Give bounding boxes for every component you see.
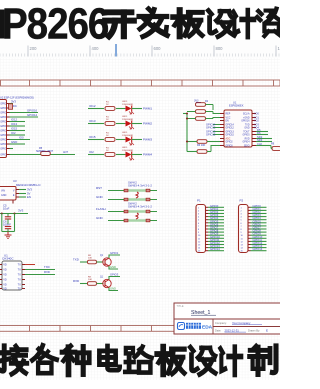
svg-text:TX: TX — [18, 274, 22, 277]
svg-text:VD: VD — [3, 269, 7, 272]
svg-text:ANT: ANT — [63, 151, 68, 154]
svg-text:GPIO: GPIO — [0, 130, 6, 133]
svg-text:SW-B3-4.3x4.3-1-2: SW-B3-4.3x4.3-1-2 — [128, 184, 152, 188]
svg-text:1206GS(R): 1206GS(R) — [122, 104, 133, 106]
svg-text:GND: GND — [244, 128, 249, 130]
svg-text:3V3: 3V3 — [11, 99, 16, 103]
svg-text:GPIO12: GPIO12 — [226, 128, 235, 130]
svg-text:GPIO: GPIO — [0, 154, 6, 157]
svg-text:RXD: RXD — [73, 279, 79, 283]
svg-text:ME6211C33M5G-N: ME6211C33M5G-N — [16, 183, 40, 187]
svg-text:GPIO16: GPIO16 — [27, 108, 38, 112]
svg-text:GPIO14: GPIO14 — [226, 125, 235, 127]
svg-text:VD: VD — [3, 288, 7, 291]
svg-text:LED1: LED1 — [122, 101, 128, 103]
svg-text:LED1: LED1 — [122, 116, 128, 118]
svg-text:10K: 10K — [88, 279, 92, 281]
svg-text:Your Company: Your Company — [232, 321, 251, 325]
svg-text:VCC: VCC — [226, 118, 231, 120]
svg-text:TXD: TXD — [44, 265, 50, 269]
svg-text:VD: VD — [3, 264, 7, 267]
svg-text:GND: GND — [96, 216, 104, 220]
svg-text:IO2: IO2 — [89, 150, 94, 154]
svg-text:GPIO13: GPIO13 — [226, 132, 235, 134]
svg-text:VD: VD — [3, 284, 7, 287]
svg-text:PWM2: PWM2 — [143, 122, 152, 126]
svg-text:GPIO: GPIO — [0, 139, 6, 142]
svg-text:GPIO: GPIO — [0, 107, 6, 110]
svg-text:2023-12-31: 2023-12-31 — [225, 328, 240, 332]
svg-text:IO15: IO15 — [11, 126, 18, 130]
svg-text:GND: GND — [1, 194, 7, 197]
svg-text:RST: RST — [96, 186, 102, 190]
svg-text:VIN: VIN — [1, 190, 5, 193]
svg-text:GND: GND — [11, 140, 17, 144]
svg-text:1206GS(R): 1206GS(R) — [122, 150, 133, 152]
svg-text:IO13: IO13 — [11, 122, 18, 126]
svg-text:TX: TX — [18, 284, 22, 287]
svg-text:1206GS(R): 1206GS(R) — [122, 119, 133, 121]
svg-text:GPIO: GPIO — [0, 125, 6, 128]
svg-text:TXD: TXD — [245, 125, 250, 127]
svg-text:GPIO2: GPIO2 — [226, 142, 234, 144]
svg-text:GPIO: GPIO — [0, 112, 6, 115]
svg-text:GND: GND — [96, 195, 104, 199]
svg-text:IO2: IO2 — [11, 131, 16, 135]
svg-text:P8266: P8266 — [2, 0, 108, 42]
svg-text:GPIO14: GPIO14 — [27, 113, 38, 117]
svg-text:SMF05C-LM3T: SMF05C-LM3T — [36, 150, 54, 153]
svg-text:EN: EN — [226, 121, 230, 123]
svg-text:TX: TX — [18, 264, 22, 267]
svg-text:IO13: IO13 — [89, 119, 96, 123]
svg-text:GPIO: GPIO — [0, 134, 6, 137]
svg-text:P2: P2 — [240, 199, 244, 203]
svg-text:RXD: RXD — [245, 139, 250, 141]
svg-text:GPIO5: GPIO5 — [242, 135, 250, 137]
svg-text:GPIO0: GPIO0 — [226, 146, 234, 148]
svg-text:EN: EN — [27, 195, 31, 199]
svg-text:TX: TX — [18, 279, 22, 282]
svg-text:GPIO4: GPIO4 — [242, 142, 250, 144]
svg-text:VD: VD — [3, 274, 7, 277]
svg-text:E: E — [266, 328, 268, 332]
svg-text:GPIO16: GPIO16 — [241, 121, 250, 123]
svg-text:IO0: IO0 — [19, 135, 24, 139]
svg-text:PWM4: PWM4 — [143, 153, 152, 157]
svg-text:CH340C: CH340C — [2, 256, 14, 260]
svg-text:1206GS(R): 1206GS(R) — [122, 135, 133, 137]
svg-text:IO15: IO15 — [89, 135, 96, 139]
svg-text:SW-B3-4.3x4.3-1-2: SW-B3-4.3x4.3-1-2 — [128, 205, 152, 209]
svg-text:TX: TX — [18, 288, 22, 291]
svg-text:PWM3: PWM3 — [143, 138, 152, 142]
svg-text:GPIO: GPIO — [0, 121, 6, 124]
svg-text:SDIO: SDIO — [244, 146, 250, 148]
svg-text:10uF: 10uF — [3, 207, 10, 211]
svg-text:LED1: LED1 — [122, 132, 128, 134]
svg-text:R3 10K: R3 10K — [197, 144, 206, 147]
svg-text:GPIO15: GPIO15 — [226, 135, 235, 137]
svg-text:3V3: 3V3 — [18, 209, 24, 213]
svg-text:GPIO: GPIO — [0, 103, 6, 106]
svg-text:FLASH: FLASH — [96, 207, 106, 211]
svg-text:EDA: EDA — [202, 325, 213, 331]
svg-text:LED1: LED1 — [122, 147, 128, 149]
svg-text:RXD: RXD — [44, 270, 50, 274]
svg-text:GPIO: GPIO — [0, 148, 6, 151]
svg-text:TXD: TXD — [73, 258, 79, 262]
svg-text:PWM1: PWM1 — [143, 107, 152, 111]
svg-text:REP: REP — [226, 114, 231, 116]
svg-text:U3: U3 — [13, 179, 17, 183]
svg-text:VD: VD — [3, 279, 7, 282]
svg-text:10K: 10K — [88, 258, 92, 260]
svg-text:+GND: +GND — [243, 118, 250, 120]
svg-text:IO12: IO12 — [89, 104, 96, 108]
svg-text:TX: TX — [18, 269, 22, 272]
svg-text:GPIO: GPIO — [0, 116, 6, 119]
svg-text:100nF: 100nF — [3, 223, 11, 227]
svg-text:TOUT: TOUT — [243, 132, 250, 134]
svg-text:GPIO: GPIO — [0, 143, 6, 146]
svg-text:Sheet_1: Sheet_1 — [191, 310, 210, 316]
svg-text:IO12: IO12 — [11, 117, 18, 121]
svg-text:P1: P1 — [197, 199, 201, 203]
svg-text:3V3: 3V3 — [27, 188, 32, 192]
